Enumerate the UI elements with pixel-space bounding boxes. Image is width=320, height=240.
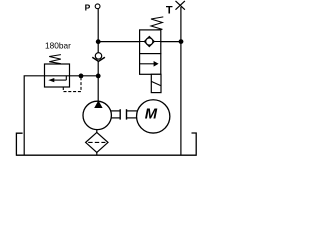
wire riser junction A to check valve	[97, 42, 99, 53]
wire riser junction B to pump	[97, 76, 99, 103]
port P label	[85, 3, 91, 13]
svg-text:P: P	[85, 3, 91, 13]
node junction A (P line / valve branch)	[96, 39, 101, 44]
node junction B (pressure line / relief branch)	[96, 74, 101, 79]
pump P1 body	[83, 101, 111, 129]
directional valve V2 check ball	[146, 38, 153, 45]
directional valve V2 bottom box	[140, 54, 161, 75]
solenoid Y1 slash	[151, 81, 161, 85]
directional valve V2 spring	[151, 17, 163, 30]
svg-text:180bar: 180bar	[45, 41, 71, 51]
wire P junction to valve	[98, 41, 140, 43]
wire check valve to junction B	[97, 61, 99, 76]
svg-text:M: M	[145, 106, 158, 122]
motor M1 body	[137, 100, 170, 133]
tank / reservoir	[16, 133, 197, 155]
filter F1 element (dashed)	[88, 141, 105, 143]
check valve V1 ball	[95, 53, 101, 59]
node junction D (valve outlet / tank riser)	[179, 39, 184, 44]
wire filter to tank	[96, 152, 98, 155]
wire relief valve line and drop to tank	[24, 76, 98, 155]
check valve V1 seat	[92, 57, 105, 61]
motor M1 label	[145, 106, 158, 122]
directional valve V2 through line	[140, 41, 161, 43]
wire P riser upper	[97, 9, 99, 42]
relief valve RV1 arrow	[53, 79, 66, 81]
solenoid Y1 box	[151, 74, 161, 92]
relief valve RV1 spring	[49, 55, 61, 64]
directional valve V2 top box	[140, 30, 161, 54]
pump P1 flow triangle	[94, 100, 102, 108]
label 180bar	[45, 41, 71, 51]
coupling shaft motor side	[126, 109, 128, 119]
relief valve RV1 body	[45, 64, 70, 87]
filter F1 body	[86, 132, 108, 152]
pilot line (dashed)	[63, 78, 81, 92]
suction line pump to filter	[96, 130, 98, 133]
coupling shaft pump side	[111, 110, 120, 112]
directional valve V2 flow arrow	[140, 63, 154, 65]
directional valve V2 check seat diamond	[144, 37, 154, 47]
port T label	[166, 4, 173, 16]
node junction C (pilot tap)	[79, 74, 84, 79]
wire valve to T riser	[161, 41, 181, 43]
svg-text:T: T	[166, 4, 173, 16]
wire T riser to tank	[180, 7, 182, 155]
plugged port X symbol	[176, 1, 185, 10]
port P symbol	[95, 4, 100, 9]
